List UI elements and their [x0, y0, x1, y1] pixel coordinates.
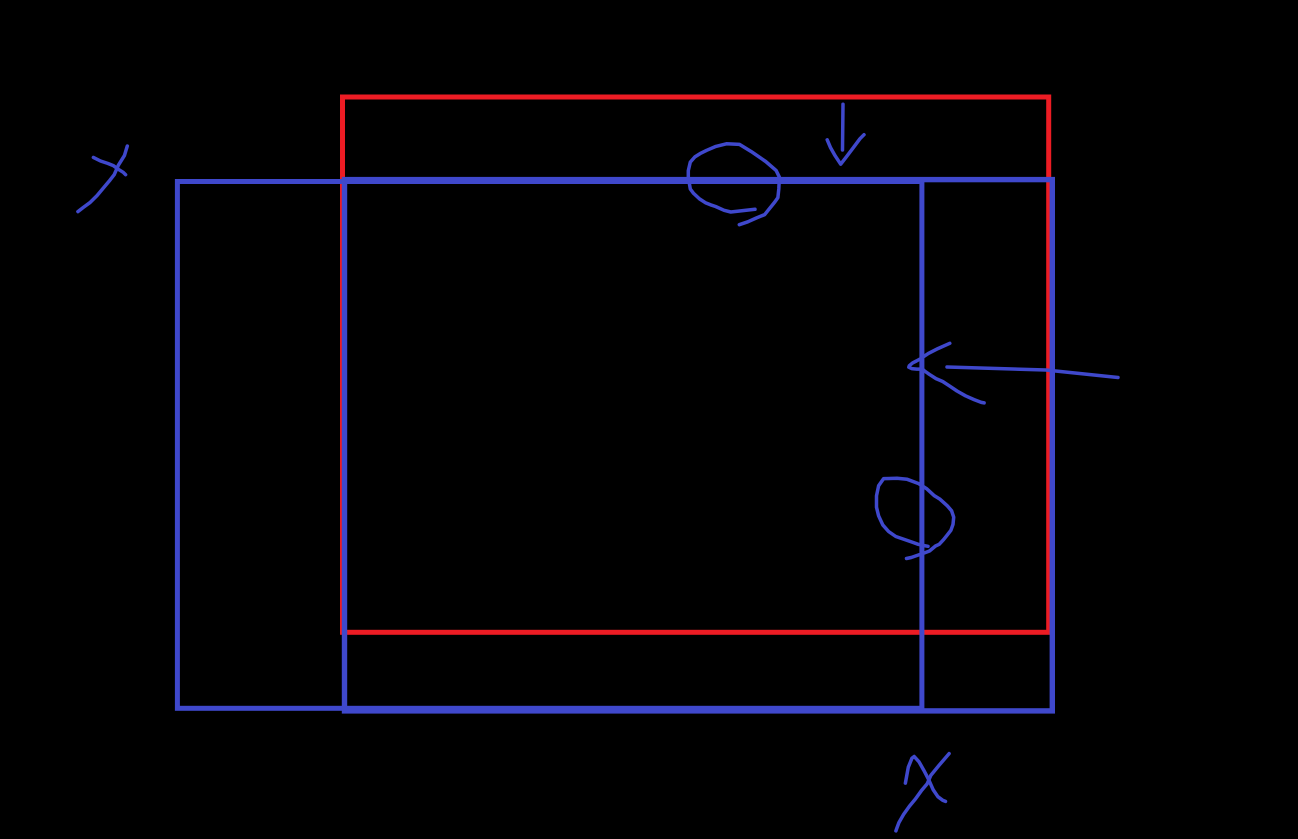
blue rectangle B (right) [345, 180, 1053, 711]
red rectangle [343, 97, 1049, 632]
X mark top-left, long stroke [78, 146, 127, 212]
X mark top-left, short stroke [93, 157, 125, 174]
left arrow head with loop [909, 343, 984, 403]
scribbled blob circle on right edge [877, 478, 954, 558]
left arrow shaft [947, 367, 1118, 378]
blue rectangle A (left) [177, 182, 922, 709]
X mark bottom, long diagonal stroke [896, 754, 949, 831]
X mark bottom, lambda stroke [905, 757, 945, 802]
down arrow head (V) [827, 135, 864, 165]
down arrow shaft [841, 104, 845, 150]
scribbled circle on top edge [688, 144, 779, 225]
